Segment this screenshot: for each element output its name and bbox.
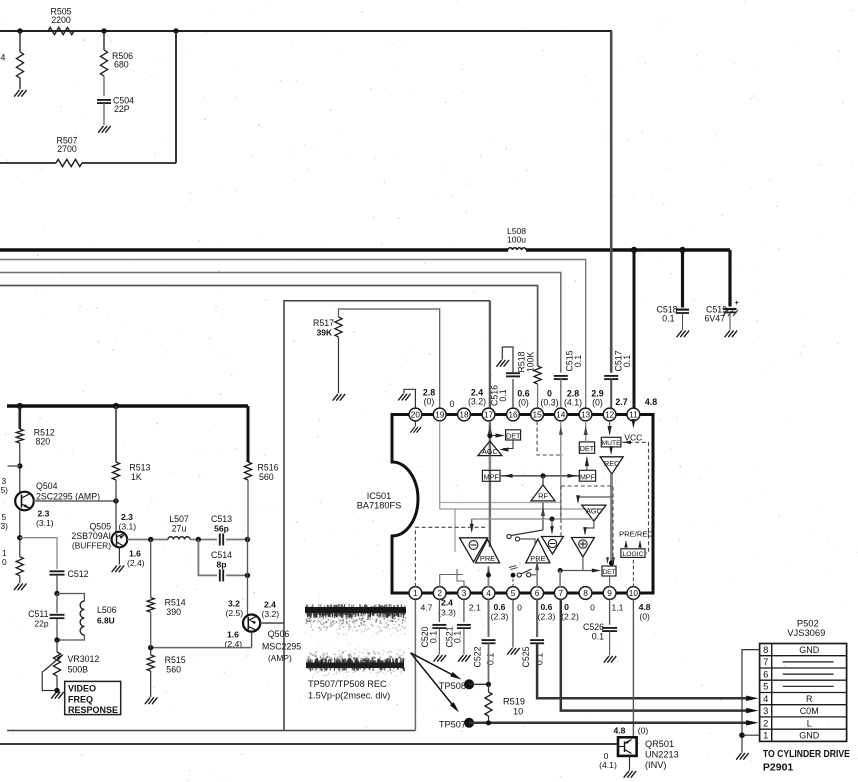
ground R515 — [145, 698, 157, 704]
wire pin5 to ground — [512, 599, 514, 647]
wire MPF1 to MPF2 with arrows — [500, 474, 579, 478]
resistor R518 — [534, 366, 541, 384]
wire C516 hook to ground — [502, 347, 513, 373]
svg-text:DET: DET — [602, 569, 615, 576]
svg-text:(AMP): (AMP) — [268, 653, 292, 663]
wire internal vertical to PRE1 — [454, 509, 456, 552]
junction dot R519 top — [486, 682, 491, 687]
svg-text:AGC: AGC — [482, 447, 498, 456]
label L506 6.8U — [97, 605, 117, 626]
svg-text:GND: GND — [799, 731, 820, 741]
junction dot R519 bottom — [486, 720, 491, 725]
label 4.8 QR501 — [614, 726, 626, 736]
svg-text:0: 0 — [517, 603, 522, 613]
label 2.4 (3.3) pin2 — [438, 598, 456, 618]
svg-text:(2.4): (2.4) — [127, 558, 145, 568]
svg-text:0.1: 0.1 — [622, 355, 632, 367]
connector P502 pin labels — [763, 644, 834, 741]
svg-text:0.1: 0.1 — [428, 631, 438, 643]
wire preamp feed h with arrow into minus1 — [470, 519, 594, 533]
svg-text:2.1: 2.1 — [469, 603, 481, 613]
junction dot VR top — [54, 637, 59, 642]
ground C526 — [604, 656, 616, 662]
svg-text:7: 7 — [763, 656, 768, 667]
label fragment 1 0 — [2, 548, 7, 567]
label R518 100K vertical — [517, 351, 536, 372]
label RF — [538, 492, 548, 501]
label R505 2200 — [50, 7, 71, 25]
wire pin17 internal column — [489, 421, 491, 547]
label C521 0.1 vertical — [444, 626, 462, 647]
wire VR wiper — [42, 670, 57, 691]
svg-text:RESPONSE: RESPONSE — [68, 705, 118, 715]
dashed box around AGC2 — [561, 486, 613, 563]
label R517 39K — [313, 318, 334, 338]
label 0.6 (2.3) pin6 — [538, 602, 556, 622]
svg-text:680: 680 — [114, 60, 129, 70]
svg-text:6: 6 — [763, 668, 768, 679]
capacitor C512 — [50, 571, 65, 574]
wire pin3 internal — [457, 569, 464, 587]
transistor QR501 in box — [618, 737, 637, 756]
label 0 pin5 — [517, 603, 522, 613]
label R507 2700 — [56, 136, 77, 155]
arrow into connector row3 — [746, 708, 758, 713]
svg-text:RF: RF — [538, 492, 548, 501]
svg-text:R513: R513 — [129, 463, 150, 473]
wire R507 net — [0, 162, 176, 164]
resistor R515 — [147, 655, 154, 671]
wire R513 column — [115, 406, 117, 462]
wire bottom rail to QR501 — [0, 743, 618, 745]
svg-text:C511: C511 — [28, 609, 48, 619]
wire L506 bottom link — [57, 635, 84, 640]
svg-text:(BUFFER): (BUFFER) — [72, 541, 111, 551]
arrows into DET3 top — [606, 557, 615, 564]
junction dot preamp feed — [550, 517, 555, 522]
label C504 22P — [113, 96, 134, 115]
svg-text:0.6: 0.6 — [494, 602, 506, 612]
label 2.3 (3.1) Q505 — [119, 512, 137, 532]
resistor R505 — [48, 27, 74, 34]
wire pin9 internal stub — [609, 576, 611, 587]
svg-text:1K: 1K — [131, 472, 142, 482]
label 1.6 (2.4) Q506 — [225, 630, 243, 650]
capacitor C514 — [220, 569, 223, 581]
wire dot down to minus2 — [550, 519, 554, 535]
svg-text:(2.2): (2.2) — [561, 612, 579, 622]
svg-text:(2.5): (2.5) — [226, 608, 244, 618]
wire C514 branch — [198, 540, 217, 576]
wire pin20 hook to ground — [404, 389, 415, 408]
wire MPF2 up to DET2 with arrow — [585, 457, 589, 471]
wire bus to pin 11 VCC — [633, 250, 636, 408]
capacitor C521 — [457, 625, 471, 628]
svg-text:(3.1): (3.1) — [36, 518, 54, 528]
ground C518 — [677, 331, 689, 337]
wire bus3 to C515 — [0, 273, 561, 373]
transistor Q504 — [15, 492, 34, 511]
wire QR501 to ground — [629, 756, 631, 771]
label 2.7 pin12 — [615, 397, 627, 407]
wire C515 to pin 14 — [560, 379, 562, 408]
label 4 fragment — [1, 53, 6, 63]
svg-text:(2.3): (2.3) — [491, 612, 509, 622]
transistor Q505 — [112, 532, 128, 548]
ground C504 — [99, 126, 111, 132]
svg-text:2.3: 2.3 — [121, 512, 133, 522]
svg-text:TP507: TP507 — [439, 720, 466, 730]
junction dot pin7 column top — [558, 568, 563, 573]
label Q506 MSC2295 (AMP) — [262, 629, 301, 663]
arrow into connector row2 — [746, 720, 758, 725]
svg-text:(0): (0) — [639, 612, 650, 622]
label C511 22p — [28, 609, 49, 629]
svg-text:8: 8 — [583, 588, 588, 598]
wire top net down to C517 — [610, 31, 613, 373]
wire R512 to node — [19, 443, 21, 492]
wire R514 column — [150, 540, 152, 598]
contact mark above S2 — [509, 566, 518, 570]
svg-text:BA7180FS: BA7180FS — [357, 501, 401, 511]
wire internal grey h2 — [440, 508, 603, 510]
label fragment 3 5) — [1, 476, 9, 495]
svg-text:0.1: 0.1 — [662, 314, 674, 324]
wire C504 to ground — [103, 103, 105, 125]
wire bus corner to C519 — [728, 250, 731, 307]
IC top pins 20..11 — [409, 408, 640, 421]
wire Q505 emitter — [127, 539, 168, 541]
wire pin10 to QR501 — [632, 599, 634, 737]
op-amp PRE1 triangle — [475, 539, 499, 563]
wire box right up to pin 1 — [414, 599, 416, 730]
ground VR — [52, 692, 64, 698]
wire pin7 internal column — [559, 571, 561, 588]
svg-text:TP508: TP508 — [439, 681, 466, 691]
label (0) QR501 — [638, 726, 649, 736]
label 4.8 pin11 — [645, 397, 657, 407]
wire below RF with arrow — [541, 501, 545, 530]
junction dot bus to pin11 — [631, 247, 637, 253]
resistor R516 — [244, 462, 251, 480]
svg-text:0.1: 0.1 — [534, 653, 544, 665]
svg-text:9: 9 — [607, 588, 612, 598]
wire pin6 internal column — [535, 560, 539, 587]
ground pin20 hook — [399, 394, 411, 400]
test point TP508 — [464, 679, 474, 689]
ground P502 — [737, 753, 749, 759]
wire L506 top link — [57, 594, 84, 602]
svg-text:5: 5 — [511, 588, 516, 598]
resistor R507 — [56, 159, 82, 166]
wire R514 to node — [150, 612, 152, 648]
arrow callout to TP507 — [411, 653, 461, 714]
svg-text:2700: 2700 — [57, 144, 77, 154]
capacitor C517 — [604, 376, 618, 379]
label R513 1K — [129, 463, 150, 483]
wire Q504 down — [19, 510, 21, 538]
op-amp AGC1 triangle — [478, 441, 502, 456]
block DET2 box — [579, 442, 594, 453]
label 1.5Vp-p(2msec. div) — [308, 691, 390, 701]
label 2.9 (0) pin13 — [591, 389, 603, 408]
op-amp PRE2 triangle — [526, 539, 550, 563]
wire Q505 to ground — [118, 547, 120, 564]
junction dot base node Q504 — [17, 463, 22, 468]
wire pin17 column to box top — [489, 301, 491, 408]
arrow callout to TP508 — [411, 653, 463, 682]
wire AGC1 to MPF1 — [489, 456, 491, 471]
svg-text:2SB709AI: 2SB709AI — [71, 531, 111, 541]
wire stub from left edge — [8, 465, 20, 467]
svg-text:(0): (0) — [518, 398, 529, 408]
junction dot P502 pin1 gnd — [739, 732, 745, 738]
wire pin5 internal dashed — [512, 578, 514, 588]
svg-text:R515: R515 — [165, 655, 186, 665]
inductor L508 — [508, 248, 526, 250]
svg-text:6V47: 6V47 — [704, 314, 725, 324]
label 1.6 (2.4) Q505 — [127, 549, 145, 569]
wire R513 to node — [115, 480, 117, 501]
junction dot pin17 internal — [487, 433, 492, 438]
wire pin2 to C520 — [438, 599, 440, 622]
junction dot REC column — [609, 560, 614, 565]
svg-text:56p: 56p — [214, 524, 229, 534]
svg-text:R: R — [806, 694, 813, 704]
svg-text:3.2: 3.2 — [228, 599, 240, 609]
svg-text:12: 12 — [605, 410, 615, 420]
svg-text:TP507/TP508 REC: TP507/TP508 REC — [308, 679, 387, 689]
svg-text:1: 1 — [413, 588, 418, 598]
svg-text:(0): (0) — [592, 398, 603, 408]
wire to lower resistor — [19, 538, 21, 557]
wire pin12 to MUTE with arrow — [608, 421, 612, 436]
svg-text:VCC: VCC — [624, 433, 642, 443]
wire TP508 link — [469, 683, 488, 685]
svg-text:L507: L507 — [169, 514, 189, 524]
junction dot bus to C518 — [679, 247, 685, 253]
svg-text:(2.3): (2.3) — [538, 612, 556, 622]
op-amp minus2 triangle — [542, 537, 564, 555]
arrow into pin17 — [488, 425, 492, 435]
svg-text:VJS3069: VJS3069 — [787, 627, 825, 638]
wire C512 to L506 node — [56, 575, 58, 594]
junction dot R514 tap — [148, 537, 153, 542]
wire C517 to pin 12 — [610, 379, 612, 408]
switch S1 internal — [507, 530, 543, 541]
svg-text:8p: 8p — [216, 560, 226, 570]
op-amp plus amp triangle — [571, 538, 594, 558]
wire R518 to pin 15 — [537, 384, 539, 408]
wire VR top link — [56, 640, 58, 652]
wire C520 to ground — [438, 629, 440, 655]
svg-text:Q505: Q505 — [89, 522, 111, 532]
wire node C to R507 net — [175, 31, 177, 163]
svg-text:Q506: Q506 — [268, 629, 290, 639]
label C525 0.1 vertical — [521, 646, 544, 667]
wire R517 top to pin 19 — [339, 309, 440, 408]
label fragment 5 3) — [1, 512, 9, 531]
wire pin6 to C525 — [536, 599, 538, 637]
label 0 pin8 — [590, 603, 595, 613]
svg-text:(3.2): (3.2) — [468, 397, 486, 407]
svg-text:MUTE: MUTE — [601, 440, 621, 447]
capacitor C513 — [220, 534, 223, 546]
svg-text:2: 2 — [763, 717, 768, 728]
ground left branch — [15, 90, 27, 96]
svg-text:AGC: AGC — [586, 507, 602, 516]
resistor R506 — [100, 50, 107, 76]
svg-text:4.8: 4.8 — [614, 726, 626, 736]
op-amp AGC2 triangle — [582, 505, 606, 521]
capacitor C515 — [554, 376, 568, 379]
label 2.8 (4.1) pin14 — [564, 389, 582, 408]
svg-text:820: 820 — [36, 437, 51, 447]
ground Q505 — [112, 566, 124, 572]
wire lower resistor to ground — [19, 576, 21, 583]
svg-text:C512: C512 — [68, 569, 89, 579]
wire C522 to TP junction — [488, 644, 490, 685]
wire into DET3 with arrow — [560, 569, 601, 573]
capacitor C511 — [50, 615, 65, 618]
label C516 0.1 vertical — [490, 385, 509, 406]
svg-text:R516: R516 — [258, 463, 279, 473]
wire node to Q505 — [115, 501, 117, 533]
variable resistor VR3012 — [45, 652, 65, 676]
capacitor C522 — [482, 640, 496, 643]
IC U501 outline with notch — [392, 415, 653, 594]
wire Q504 emitter to R513 — [34, 500, 116, 502]
dashed wire VCC to LOGIC — [622, 441, 649, 554]
op-amp REC triangle — [600, 457, 623, 474]
svg-text:0.1: 0.1 — [486, 653, 496, 665]
svg-text:R514: R514 — [165, 598, 186, 608]
svg-text:4.7: 4.7 — [421, 603, 433, 613]
svg-text:17: 17 — [484, 410, 494, 420]
resistor R517 — [335, 317, 342, 337]
svg-text:16: 16 — [508, 410, 518, 420]
svg-text:4: 4 — [486, 588, 491, 598]
IC bottom pins 1..10 — [409, 587, 640, 600]
block MPF1 box — [482, 470, 500, 481]
wire MUTE to REC arrow — [609, 446, 613, 455]
wire C521 to ground — [463, 629, 465, 655]
label TO CYLINDER DRIVE — [763, 748, 850, 760]
svg-text:C525: C525 — [521, 646, 531, 667]
svg-text:10: 10 — [629, 588, 639, 598]
wire rail corner down to R516 — [247, 406, 250, 462]
wire R519 joins — [488, 684, 490, 723]
svg-text:1.6: 1.6 — [129, 549, 141, 559]
junction dot rail R512 — [17, 403, 23, 409]
wire C512 tap — [20, 538, 57, 569]
svg-text:DET: DET — [506, 431, 521, 440]
label P502 VJS3069 — [787, 618, 825, 639]
wire pin6 to connector row4 — [537, 644, 752, 699]
label R506 680 — [112, 51, 133, 70]
svg-text:2SC2295 (AMP): 2SC2295 (AMP) — [36, 492, 100, 502]
wire R515 to ground — [150, 671, 152, 697]
label 0 pin19 — [450, 399, 455, 409]
wire B+ bus thick — [0, 248, 730, 252]
wire R506 branch — [103, 31, 105, 96]
label P2901 — [763, 762, 794, 774]
junction dot R515 top — [148, 645, 153, 650]
wire pin3 to C521 — [463, 599, 465, 622]
wire VR bottom — [56, 676, 58, 691]
junction dot L506 top — [54, 591, 59, 596]
svg-text:(4.1): (4.1) — [564, 398, 582, 408]
svg-text:14: 14 — [556, 410, 566, 420]
capacitor C519 polarized — [723, 298, 740, 316]
label 0 (2.2) pin7 — [561, 602, 579, 622]
resistor R513 — [112, 462, 119, 480]
svg-text:MPF: MPF — [580, 472, 596, 481]
svg-text:+: + — [735, 298, 740, 307]
op-amp RF triangle — [531, 485, 555, 501]
svg-text:5): 5) — [1, 485, 9, 495]
junction dot C513 out — [245, 537, 250, 542]
wire P502 pin8 to ground — [742, 650, 760, 753]
label 4.8 (0) pin10 — [639, 602, 651, 622]
svg-text:2.4: 2.4 — [441, 598, 453, 608]
junction dot MPF wire — [540, 473, 545, 478]
svg-text:6.8U: 6.8U — [97, 616, 115, 626]
svg-text:2.7: 2.7 — [615, 397, 627, 407]
svg-text:3): 3) — [1, 521, 9, 531]
test point TP507 — [464, 718, 474, 728]
label TP508 — [439, 681, 466, 691]
arrow into connector row4 — [746, 696, 758, 701]
label C517 0.1 vertical — [614, 350, 633, 371]
capacitor C518 — [676, 310, 689, 313]
svg-text:390: 390 — [166, 607, 181, 617]
label VCC and arrow from pin11 — [624, 419, 642, 443]
resistor R512 — [16, 429, 23, 443]
wire pin16 to C516 — [512, 379, 514, 408]
label 2.1 pin3 — [469, 603, 481, 613]
switch S2 internal — [511, 569, 536, 578]
label C518 0.1 — [656, 305, 677, 324]
capacitor C504 — [97, 100, 111, 103]
label C515 0.1 vertical — [565, 350, 584, 371]
wire C526 to ground — [609, 632, 611, 656]
wire box bottom — [7, 730, 415, 732]
inductor L506 — [80, 601, 84, 635]
wire pin4 to C522 — [488, 599, 490, 637]
wire top net from left edge to corner — [0, 30, 612, 32]
svg-text:15: 15 — [532, 410, 542, 420]
wire supply rail left thick — [7, 404, 248, 407]
label Q504 2SC2295 (AMP) — [36, 481, 100, 502]
svg-text:0.6: 0.6 — [541, 602, 553, 612]
wire R517 to ground — [338, 337, 340, 393]
dashed wire LOGIC to pin10 — [632, 557, 634, 587]
block LOGIC box — [621, 549, 645, 558]
svg-text:2.3: 2.3 — [38, 509, 50, 519]
junction dot rail R513 — [113, 403, 119, 409]
label QR501 UN2213 (INV) — [645, 739, 679, 770]
svg-text:2.4: 2.4 — [264, 600, 276, 610]
wire C513 to R516 node — [226, 539, 248, 541]
svg-text:4: 4 — [763, 693, 768, 704]
svg-text:C0M: C0M — [800, 706, 819, 716]
label TP507 — [439, 720, 466, 730]
wire internal grey h1 — [440, 502, 560, 504]
wire Q506 emitter to box wire — [260, 622, 283, 624]
wire bus2 to pin 13 — [0, 260, 586, 409]
label 2.4 (3.2) Q506 — [262, 600, 280, 620]
